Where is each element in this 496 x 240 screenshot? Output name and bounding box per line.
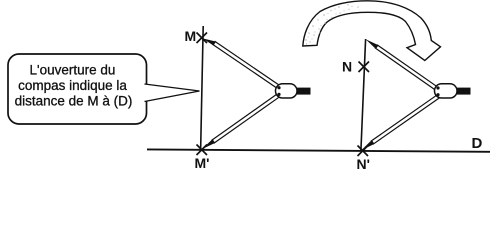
svg-text:M: M [185, 28, 197, 44]
svg-text:D: D [472, 135, 483, 152]
svg-text:distance de M à (D): distance de M à (D) [15, 94, 133, 109]
svg-text:M': M' [195, 155, 210, 171]
svg-text:compas indique la: compas indique la [18, 78, 127, 93]
svg-text:N: N [342, 59, 352, 75]
svg-text:L'ouverture du: L'ouverture du [30, 63, 116, 78]
svg-text:N': N' [357, 156, 370, 172]
